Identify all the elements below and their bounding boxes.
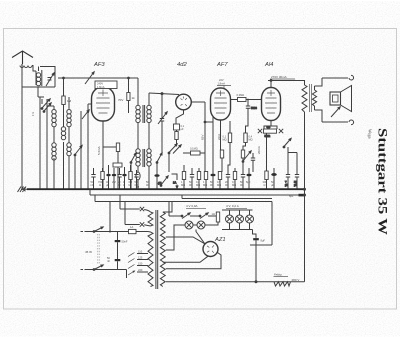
switch AVC — [168, 144, 181, 172]
svg-text:1A: 1A — [130, 225, 133, 229]
cap row f — [117, 168, 121, 189]
antenna — [12, 51, 33, 66]
field winding upper — [148, 212, 153, 226]
svg-text:MΩ: MΩ — [217, 183, 221, 187]
wire mains lower to taps — [126, 270, 128, 279]
blob row e — [112, 168, 116, 189]
cap row o — [226, 172, 230, 189]
tap 1A bracket — [172, 174, 178, 188]
band switch S2 — [74, 146, 82, 190]
svg-text:AF3: AF3 — [93, 62, 105, 68]
switch IFT right — [154, 153, 162, 189]
coil box frame — [39, 67, 56, 88]
X feed wires — [120, 195, 140, 225]
rail heater — [95, 195, 272, 202]
resistor pot — [241, 150, 244, 172]
wire x110 down from heater rail — [109, 202, 111, 232]
svg-text:1,8mA: 1,8mA — [218, 82, 226, 86]
svg-text:µF: µF — [181, 127, 184, 131]
wire AK2 bottom — [176, 110, 184, 124]
svg-text:MΩ: MΩ — [223, 138, 227, 142]
antenna coupling coil L1 — [20, 66, 32, 68]
svg-text:AZ1: AZ1 — [214, 237, 226, 243]
coil L3 — [52, 110, 56, 127]
heater switch b — [199, 213, 216, 219]
anno 22V — [217, 78, 231, 89]
grid bias X resistor X — [258, 121, 283, 138]
lamp trio — [226, 215, 254, 223]
wire speaker links — [315, 78, 323, 122]
svg-text:µF: µF — [106, 183, 109, 187]
svg-text:50nF: 50nF — [122, 240, 128, 244]
svg-text:150: 150 — [138, 262, 143, 266]
svg-text:1,8mA: 1,8mA — [97, 85, 105, 89]
svg-text:nF: nF — [107, 259, 110, 263]
secondary tap to lamps — [166, 225, 181, 250]
box right edge — [250, 202, 272, 246]
resistor 1M — [62, 78, 72, 105]
ground symbol — [18, 187, 31, 193]
coil L6 — [52, 143, 56, 160]
secondary tap top to box — [163, 202, 172, 213]
svg-text:8µF: 8µF — [246, 180, 251, 184]
rail B minus — [90, 189, 305, 195]
lamp trio bottom — [222, 223, 253, 230]
svg-text:Ω: Ω — [123, 183, 125, 187]
svg-text:MΩ: MΩ — [232, 183, 236, 187]
power transformer taps — [128, 253, 148, 276]
svg-text:1A: 1A — [173, 181, 176, 185]
resistor 0.1M below AF7 — [223, 121, 232, 172]
band switch S1 — [38, 97, 51, 112]
resistor 0.4M below coupling — [243, 120, 253, 150]
svg-text:1k: 1k — [132, 96, 136, 100]
svg-text:4d2: 4d2 — [177, 62, 187, 68]
cap row j — [190, 168, 194, 189]
power transformer core — [156, 210, 158, 289]
cap row a — [91, 168, 95, 189]
coil L7 — [67, 143, 71, 156]
IF transformer 1 — [136, 105, 151, 123]
label 4V 02A — [226, 204, 247, 208]
anno 240V box — [95, 81, 117, 89]
fuse 1A — [109, 225, 136, 234]
svg-text:5,6mA: 5,6mA — [97, 146, 101, 155]
wire grid line y78 — [58, 77, 138, 79]
cap coupling — [246, 100, 258, 121]
svg-text:µF: µF — [285, 183, 288, 187]
cap 50uF blob — [271, 168, 277, 189]
wire antenna to ground bus — [21, 87, 23, 189]
lamp trio feed — [222, 210, 253, 215]
svg-text:5000: 5000 — [251, 106, 257, 110]
svg-text:nF: nF — [91, 183, 94, 187]
tube AL4 — [262, 88, 281, 121]
svg-text:5MΩ: 5MΩ — [265, 134, 271, 138]
cap 0.1uF box — [174, 124, 185, 131]
resistor row k — [197, 168, 200, 189]
svg-text:110: 110 — [138, 250, 143, 254]
bus junction dots — [21, 188, 298, 190]
wire AF3 cathode down — [102, 121, 104, 189]
output transformer core — [310, 84, 312, 112]
trimmer arrow mixer — [158, 112, 167, 124]
blob row m — [210, 172, 215, 189]
cap x288 — [285, 175, 290, 190]
svg-text:70V: 70V — [118, 98, 123, 102]
wire AL4 cathode — [266, 134, 268, 172]
svg-text:(P): (P) — [158, 181, 162, 185]
wire mains bottom — [85, 269, 127, 271]
wire x162 down — [161, 94, 163, 116]
padder capacitor — [160, 116, 164, 155]
svg-text:4 V, 0,2 A: 4 V, 0,2 A — [226, 204, 239, 208]
switch IFT left — [130, 153, 136, 189]
svg-text:4 V 0,9A: 4 V 0,9A — [186, 204, 198, 208]
resistor 100ohm — [113, 163, 122, 189]
resistor row l — [204, 172, 207, 190]
wire bottom of antenna block — [22, 87, 55, 97]
X mark upper — [140, 207, 151, 212]
svg-text:45 W: 45 W — [85, 250, 92, 254]
svg-text:6µF: 6µF — [289, 194, 294, 198]
potentiometer P — [158, 176, 168, 186]
svg-text:270V 30mA: 270V 30mA — [271, 75, 287, 79]
heater box top — [169, 202, 182, 217]
wire speaker top — [322, 77, 348, 79]
svg-text:AF7: AF7 — [216, 62, 228, 68]
svg-text:MΩ: MΩ — [196, 183, 200, 187]
trimmer arrow 2 — [82, 110, 89, 119]
input tuning coil L2 — [36, 70, 42, 86]
speaker — [330, 86, 352, 112]
wire AL4 plate top — [268, 80, 305, 88]
cap 8uF — [253, 230, 266, 282]
svg-text:M: M — [129, 183, 131, 187]
svg-text:1Ω: 1Ω — [212, 212, 215, 216]
power transformer secondary — [160, 212, 165, 287]
tube AZ1 — [203, 242, 218, 257]
coil L4 — [67, 110, 71, 127]
tube AF7 — [211, 88, 231, 120]
speaker adjust arrow — [331, 107, 340, 117]
svg-text:Ω: Ω — [264, 183, 266, 187]
resistor below mixer — [175, 130, 178, 144]
wire AF7 stub — [204, 121, 213, 123]
label 4V 09A — [186, 204, 206, 208]
ground bus — [27, 188, 305, 190]
output transformer secondary — [312, 90, 316, 106]
svg-text:MΩ: MΩ — [203, 183, 207, 187]
potentiometer arrow — [242, 151, 251, 162]
svg-text:Ω: Ω — [99, 183, 101, 187]
mains switch — [93, 227, 103, 270]
lamp pair — [181, 221, 214, 229]
resistor row p — [233, 168, 236, 189]
choke sawtooth — [274, 282, 291, 286]
resistor below AF7 2 — [220, 150, 223, 172]
svg-text:22V: 22V — [219, 78, 224, 82]
svg-text:17c: 17c — [31, 111, 35, 116]
svg-text:280 V: 280 V — [292, 278, 300, 282]
junction 6uF — [289, 194, 305, 198]
resistor row i — [182, 165, 185, 189]
svg-text:0,3MΩ: 0,3MΩ — [237, 93, 245, 97]
svg-text:Wega: Wega — [368, 129, 373, 139]
label choke — [274, 273, 289, 277]
wire antenna down — [22, 66, 36, 88]
output transformer primary — [302, 85, 307, 112]
resistor 0.3M coupling — [231, 93, 262, 102]
speaker hook top — [349, 75, 354, 80]
wire speaker bottom — [322, 121, 348, 123]
AZ1 anode diag — [196, 230, 205, 244]
IF transformer 2 — [136, 149, 151, 167]
svg-text:MΩ: MΩ — [249, 138, 253, 142]
svg-text:Stuttgart 35 W: Stuttgart 35 W — [376, 128, 390, 236]
svg-text:Feldsp.: Feldsp. — [274, 273, 283, 277]
X mark lower — [140, 222, 151, 226]
row labels — [91, 180, 251, 189]
cap 50nF a — [115, 232, 128, 260]
cap row h — [134, 170, 138, 189]
wire IFT2 bottom — [136, 166, 149, 189]
mains terminals — [81, 232, 84, 270]
anno 270V 30mA — [270, 75, 295, 79]
blob row d — [106, 165, 110, 189]
heater switch a — [181, 213, 200, 219]
svg-text:Al4: Al4 — [264, 62, 273, 68]
svg-text:µF: µF — [271, 183, 274, 187]
resistor 300ohm — [263, 171, 269, 189]
svg-text:220: 220 — [138, 268, 143, 272]
svg-text:µF: µF — [294, 183, 297, 187]
trimmer arrow on grid line — [85, 72, 94, 84]
bottom HT line — [166, 281, 305, 283]
blob row r — [246, 168, 251, 189]
secondary tap to AZ1 anode — [166, 237, 205, 244]
secondary tap to AZ1 fil b — [166, 252, 221, 269]
resistor 1k top — [127, 78, 135, 113]
power transformer primary — [148, 232, 153, 287]
wire x288 x297 — [288, 147, 297, 174]
wire x205 — [191, 102, 205, 172]
svg-text:MΩ: MΩ — [181, 183, 185, 187]
wire x213 — [212, 117, 214, 172]
resistor row c — [101, 168, 104, 189]
speaker hook bottom — [349, 120, 354, 125]
cap x297 — [294, 175, 299, 190]
cap pot — [251, 153, 255, 172]
wire y93 to mixer — [149, 93, 179, 95]
cap row q — [241, 172, 245, 189]
wire IFT1 leads — [138, 78, 149, 149]
wire left verticals to bus — [40, 97, 92, 189]
secondary tap to AZ1 fil a — [163, 256, 209, 262]
svg-text:125: 125 — [138, 256, 143, 260]
trimmer capacitor arrow — [46, 73, 54, 86]
tube AK2 — [176, 94, 192, 110]
resistor row n — [218, 172, 221, 190]
switch tone — [283, 139, 291, 148]
svg-text:82V: 82V — [201, 135, 205, 140]
tube AF3 — [92, 87, 115, 121]
wire x220 under AF7 — [220, 120, 222, 150]
resistor row g — [129, 165, 132, 189]
svg-text:20mA: 20mA — [257, 146, 261, 154]
coil L5 — [61, 127, 65, 140]
cap 50nF b — [107, 256, 120, 270]
resistor 1ohm — [212, 212, 220, 225]
svg-text:2M: 2M — [112, 180, 116, 184]
resistor cathode — [103, 143, 120, 163]
wire mains top — [85, 231, 149, 233]
wire HT down right — [304, 112, 306, 282]
blob row f2 — [122, 167, 126, 189]
svg-text:0,1MΩ: 0,1MΩ — [190, 147, 198, 151]
tap labels — [138, 250, 143, 273]
resistor 0.1M horizontal — [183, 147, 205, 156]
svg-text:8µF: 8µF — [261, 239, 266, 243]
